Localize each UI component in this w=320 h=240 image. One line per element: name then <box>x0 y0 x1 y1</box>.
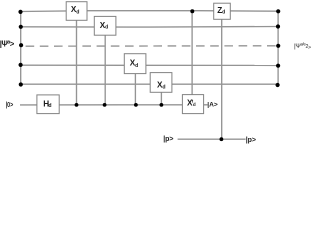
wire q5 <box>21 83 278 85</box>
control line from X_d1 <box>76 20 78 105</box>
node output bundle q2 <box>276 24 280 28</box>
svg-text:d: d <box>135 63 138 69</box>
junction ancilla/X_d1 control <box>75 103 79 107</box>
svg-text:|A>: |A> <box>207 101 218 108</box>
gate X_d1 <box>66 2 87 21</box>
control line Z_d to p <box>221 19 223 139</box>
node output bundle q4 <box>276 64 280 68</box>
wire q3 (dashed) <box>21 45 278 47</box>
gate Xt_d <box>182 95 203 114</box>
wire q2 <box>21 26 278 29</box>
node input bundle q3 <box>19 43 23 47</box>
svg-text:|p>: |p> <box>163 136 173 143</box>
svg-text:|Ψa/e2>: |Ψa/e2> <box>294 42 311 52</box>
node output bundle q3 <box>276 44 280 48</box>
control line from X_d4 <box>160 92 162 105</box>
junction q1/Xt_d <box>190 9 194 13</box>
svg-text:d: d <box>48 103 51 109</box>
wire ancilla <box>20 104 208 106</box>
svg-text:d: d <box>222 10 225 16</box>
node input bundle q2 <box>19 25 23 29</box>
wire p <box>178 138 246 140</box>
gate X_d2 <box>94 16 116 35</box>
svg-text:|Ψa>: |Ψa> <box>0 39 15 48</box>
gate X_d4 <box>150 73 172 93</box>
node input bundle q4 <box>19 63 23 67</box>
wire q4 <box>21 64 278 66</box>
junction ancilla/X_d3 control <box>134 103 138 107</box>
gate H_d <box>37 95 59 114</box>
junction ancilla/X_d2 control <box>103 103 107 107</box>
node output bundle q1 <box>276 9 280 13</box>
node input bundle q1 <box>18 10 22 14</box>
node output bundle q5 <box>276 83 280 87</box>
svg-text:d: d <box>162 85 165 91</box>
svg-text:d: d <box>105 25 108 31</box>
svg-text:d: d <box>193 102 196 107</box>
svg-text:|0>: |0> <box>6 100 14 109</box>
junction p/Z_d <box>220 137 224 141</box>
control line from X_d3 <box>134 74 136 105</box>
control line from X_d2 <box>104 35 106 105</box>
control line q1 to Xt_d <box>191 11 193 95</box>
gate Z_d <box>214 3 231 19</box>
right bundle bar <box>277 11 279 85</box>
left bundle bar <box>20 12 22 85</box>
svg-text:d: d <box>76 9 79 15</box>
junction ancilla/X_d4 control <box>160 103 164 107</box>
gate X_d3 <box>124 54 146 74</box>
svg-text:|p>: |p> <box>246 137 256 144</box>
node input bundle q5 <box>19 82 23 86</box>
wire q1 <box>21 10 278 13</box>
